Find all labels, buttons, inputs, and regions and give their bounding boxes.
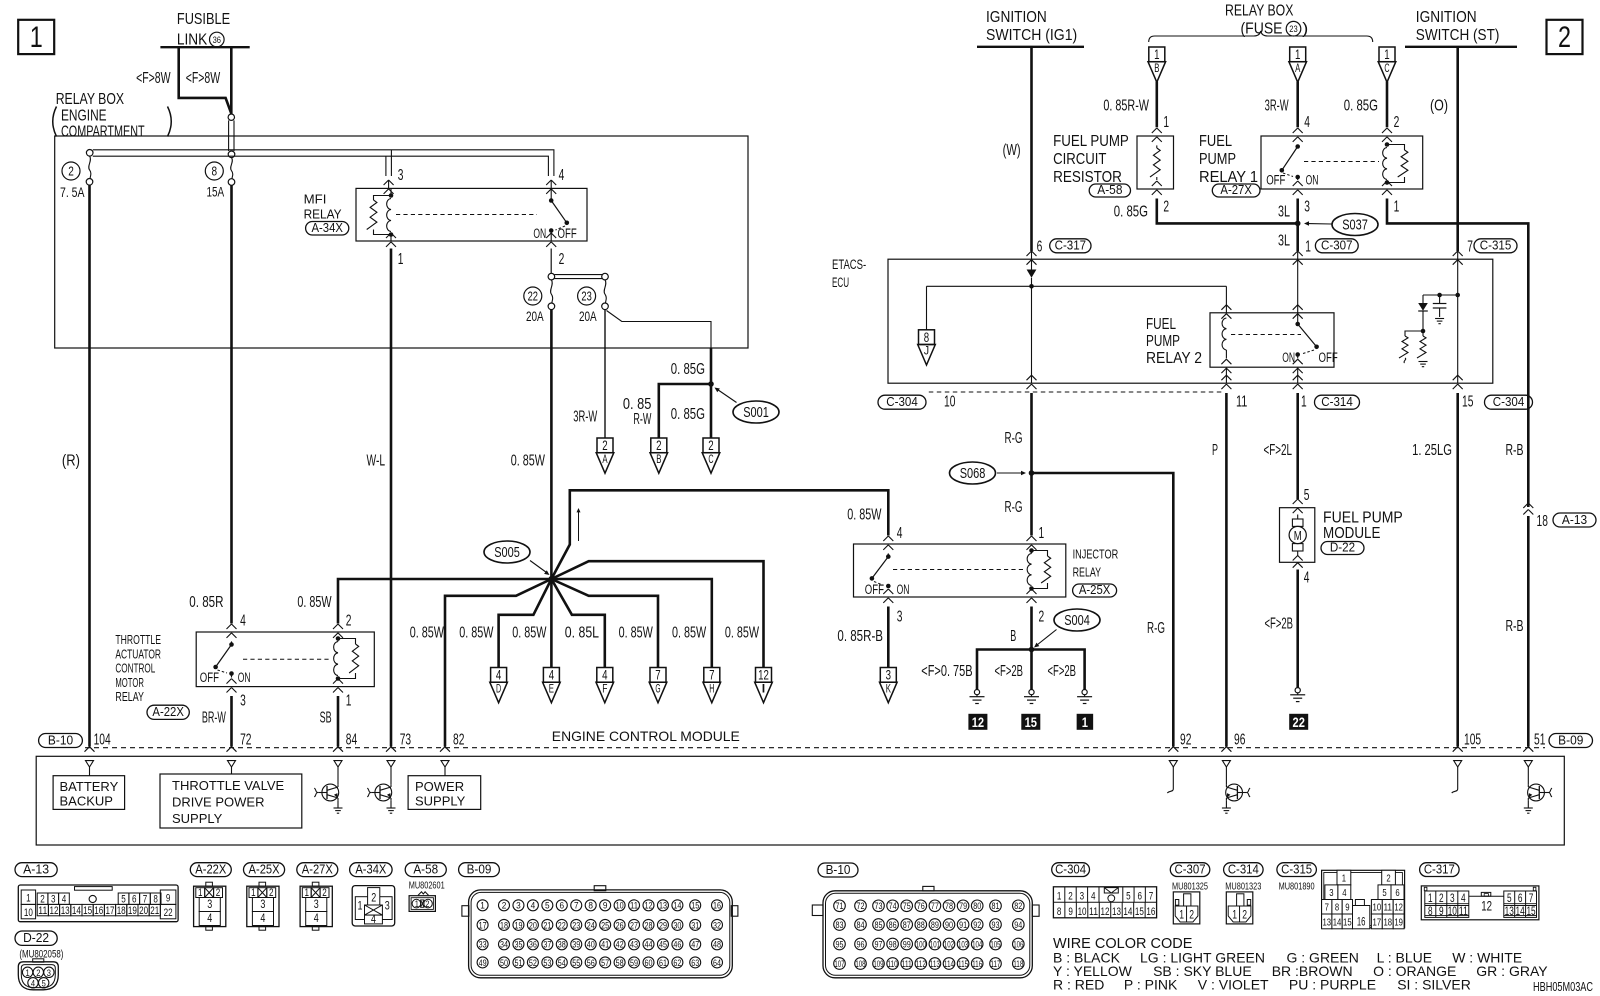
svg-text:8: 8 xyxy=(1057,906,1062,918)
wire 0.85R-B to connector K xyxy=(887,607,890,668)
fuel pump module pin5 feet xyxy=(1293,499,1303,513)
svg-text:GR : GRAY: GR : GRAY xyxy=(1476,963,1548,979)
svg-text:87: 87 xyxy=(903,920,911,930)
throttle relay pin2 feet xyxy=(333,624,343,638)
svg-text:A-34X: A-34X xyxy=(311,221,343,235)
ignition switch ST header xyxy=(1405,9,1517,47)
svg-text:85: 85 xyxy=(875,920,883,930)
svg-text:43: 43 xyxy=(630,940,638,950)
svg-text:5: 5 xyxy=(1126,890,1131,902)
svg-text:3: 3 xyxy=(886,668,891,683)
connector C-317 label xyxy=(1420,861,1460,876)
svg-text:108: 108 xyxy=(855,959,865,969)
connector C-317 body xyxy=(1421,886,1539,920)
terminal circle at fusible link joint xyxy=(228,114,234,120)
label 0.85W to ECM82 xyxy=(410,625,445,642)
label 0.85G upper xyxy=(671,361,705,378)
svg-text:0. 85W: 0. 85W xyxy=(672,625,707,642)
injector relay dashed link xyxy=(893,569,1026,571)
svg-text:4: 4 xyxy=(531,901,536,912)
svg-text:10: 10 xyxy=(944,393,956,410)
svg-text:5: 5 xyxy=(1382,887,1386,899)
svg-text:72: 72 xyxy=(857,901,865,911)
wire S005 branch to connector F xyxy=(551,579,604,668)
svg-text:RELAY 2: RELAY 2 xyxy=(1146,350,1202,367)
svg-text:78: 78 xyxy=(945,901,953,911)
svg-text:4: 4 xyxy=(260,911,265,925)
svg-text:3: 3 xyxy=(1304,198,1310,215)
injector relay pin1 label xyxy=(1039,525,1045,542)
svg-text:79: 79 xyxy=(959,901,967,911)
svg-text:S004: S004 xyxy=(1064,613,1090,629)
fuel pump relay1 pin1 label xyxy=(1394,198,1400,215)
svg-text:B-09: B-09 xyxy=(467,861,492,876)
fuse 22/23 feeder bus xyxy=(555,275,603,279)
svg-text:63: 63 xyxy=(691,958,699,968)
svg-text:5: 5 xyxy=(545,901,550,912)
wire S005 branch to connector D xyxy=(499,579,552,668)
svg-text:0. 85W: 0. 85W xyxy=(847,507,882,524)
svg-text:B-10: B-10 xyxy=(48,733,73,747)
label F2B mid2 xyxy=(1048,663,1077,680)
fuel pump circuit resistor label A-58 xyxy=(1053,133,1130,197)
svg-text:P: P xyxy=(1212,442,1218,459)
svg-text:4: 4 xyxy=(371,912,376,926)
svg-text:48: 48 xyxy=(713,940,721,950)
svg-text:9: 9 xyxy=(1439,906,1444,918)
svg-text:RELAY: RELAY xyxy=(115,689,144,704)
svg-text:<F>8W: <F>8W xyxy=(186,70,221,87)
ground right of S004 xyxy=(1077,690,1092,704)
svg-text:SUPPLY: SUPPLY xyxy=(415,794,466,809)
svg-text:14: 14 xyxy=(1333,916,1342,928)
MFI relay pin 3 label xyxy=(398,167,404,184)
svg-text:2: 2 xyxy=(1039,608,1045,625)
protection resistor left branch xyxy=(1399,331,1423,363)
fuel pump relay1 pin3 label xyxy=(1304,198,1310,215)
power supply box xyxy=(408,767,481,809)
svg-text:SB: SB xyxy=(320,710,332,727)
connector 3-K triangle xyxy=(880,668,898,703)
label 6 C-317 xyxy=(1037,239,1091,256)
label W-L xyxy=(367,452,386,469)
wire 0.85W fuse22 to S005 xyxy=(550,310,553,579)
svg-text:11: 11 xyxy=(630,901,638,911)
svg-text:7: 7 xyxy=(709,668,714,683)
svg-text:<F>2B: <F>2B xyxy=(1265,616,1294,633)
svg-text:19: 19 xyxy=(128,905,137,917)
ground pin 22 black box xyxy=(1289,714,1308,730)
svg-text:3: 3 xyxy=(240,693,246,710)
MFI relay dashed link xyxy=(396,214,537,216)
ECM entry triangle x1528.3 xyxy=(1524,761,1532,767)
ECM box outline xyxy=(36,756,1564,845)
ground pin 15 black box xyxy=(1021,714,1040,730)
engine control module label xyxy=(552,728,740,744)
svg-text:RELAY: RELAY xyxy=(304,207,342,222)
svg-text:4: 4 xyxy=(496,668,502,683)
fuel pump module pin4 label xyxy=(1304,570,1310,587)
svg-text:INJECTOR: INJECTOR xyxy=(1073,547,1119,562)
svg-text:8: 8 xyxy=(212,165,218,179)
label F2B mid1 xyxy=(995,663,1024,680)
ECM entry triangle x1173.3 xyxy=(1169,761,1177,767)
MFI relay OFF label xyxy=(558,226,577,241)
transistor at ECM pin 84 xyxy=(314,767,342,813)
svg-text:3: 3 xyxy=(385,899,390,913)
svg-text:LINK: LINK xyxy=(177,32,208,49)
wire color code line Y xyxy=(1053,963,1548,979)
svg-text:MU801325: MU801325 xyxy=(1172,880,1208,892)
label 3R-W xyxy=(573,408,598,425)
svg-text:7: 7 xyxy=(1325,902,1329,914)
node S001 junction dot xyxy=(708,381,714,387)
wire P pin11 to ECM 96 xyxy=(1225,393,1228,747)
svg-text:54: 54 xyxy=(558,958,566,968)
svg-text:R-W: R-W xyxy=(633,411,652,428)
svg-text:R-G: R-G xyxy=(1005,430,1023,447)
throttle valve drive power supply box xyxy=(160,767,302,828)
svg-text:2: 2 xyxy=(1189,910,1194,922)
svg-text:3: 3 xyxy=(314,897,319,911)
svg-text:93: 93 xyxy=(992,920,1000,930)
throttle relay ON label xyxy=(238,670,251,685)
svg-text:FUEL: FUEL xyxy=(1199,133,1232,150)
svg-text:16: 16 xyxy=(1357,916,1366,928)
svg-text:12: 12 xyxy=(1481,897,1492,913)
svg-text:H: H xyxy=(709,683,714,695)
svg-text:4: 4 xyxy=(1304,570,1310,587)
svg-text:13: 13 xyxy=(1112,906,1121,918)
label R-G lower xyxy=(1005,499,1023,516)
svg-text:R-B: R-B xyxy=(1506,442,1524,459)
label 20A right xyxy=(579,308,597,324)
fuse 8 (15A) xyxy=(228,151,235,185)
svg-text:14: 14 xyxy=(1123,906,1132,918)
svg-text:45: 45 xyxy=(659,940,667,950)
label 7 C-315 xyxy=(1467,239,1517,256)
svg-text:4: 4 xyxy=(62,893,67,905)
ground bus from S004 xyxy=(977,650,1085,690)
svg-text:28: 28 xyxy=(645,920,653,930)
svg-text:C-317: C-317 xyxy=(1424,861,1455,876)
battery backup box xyxy=(53,767,125,809)
svg-text:88: 88 xyxy=(917,920,925,930)
wire (R) fuse2 to ECM 104 xyxy=(88,185,91,746)
svg-text:A-13: A-13 xyxy=(1562,513,1587,527)
svg-text:9: 9 xyxy=(1068,906,1073,918)
label 0.85W I xyxy=(725,625,760,642)
svg-text:): ) xyxy=(1302,21,1308,38)
svg-text:MU801890: MU801890 xyxy=(1279,880,1315,892)
injector relay pin1 feet xyxy=(1027,536,1037,550)
svg-text:5: 5 xyxy=(121,893,126,905)
wire 0.85W S005 to injector relay pin4 xyxy=(551,490,888,579)
fuel pump relay2 OFF label xyxy=(1319,350,1338,365)
svg-text:60: 60 xyxy=(645,958,653,968)
svg-text:<F>0. 75B: <F>0. 75B xyxy=(921,663,972,680)
throttle relay pin3 feet xyxy=(227,679,237,693)
svg-text:105: 105 xyxy=(990,939,1000,949)
wire ST down xyxy=(1456,47,1459,251)
svg-text:89: 89 xyxy=(931,920,939,930)
label <F>8W left xyxy=(136,70,171,87)
wire IG1 down xyxy=(1030,47,1033,251)
svg-text:G: G xyxy=(655,683,660,695)
connector 7-H triangle xyxy=(703,668,721,703)
wire drop to connector 8-J xyxy=(926,286,928,330)
connector 1-A triangle xyxy=(1289,47,1307,82)
svg-text:14: 14 xyxy=(1516,906,1526,918)
connector 12-I triangle xyxy=(755,668,773,703)
svg-text:8: 8 xyxy=(924,330,929,345)
svg-text:7: 7 xyxy=(1467,239,1473,256)
wire 0.85G from C to fuel pump relay1 pin2 xyxy=(1386,82,1389,128)
ECM entry triangle x1226.4 xyxy=(1222,761,1230,767)
fuse 8 number circle xyxy=(205,162,223,180)
svg-text:4: 4 xyxy=(897,525,903,542)
connector A-34X body xyxy=(352,886,395,926)
svg-text:4: 4 xyxy=(207,911,212,925)
wire fusible link left <F>8W xyxy=(179,47,232,113)
svg-text:10: 10 xyxy=(616,901,624,911)
svg-text:MU801323: MU801323 xyxy=(1225,880,1261,892)
svg-text:51: 51 xyxy=(514,958,522,968)
ECM entry foot x1173.3 xyxy=(1168,747,1178,752)
svg-text:P : PINK: P : PINK xyxy=(1124,977,1178,993)
svg-text:1: 1 xyxy=(1301,393,1307,410)
connector B-09 body xyxy=(462,886,738,978)
fuse 2 (7.5A) xyxy=(86,150,93,186)
svg-text:34: 34 xyxy=(500,940,508,950)
svg-text:12: 12 xyxy=(645,901,653,911)
svg-text:<F>2B: <F>2B xyxy=(995,663,1024,680)
injector relay pin2 feet xyxy=(1027,589,1037,603)
svg-text:15A: 15A xyxy=(207,183,225,199)
svg-text:15: 15 xyxy=(1025,715,1038,730)
fuel pump relay2 coil xyxy=(1222,318,1226,359)
svg-text:0. 85W: 0. 85W xyxy=(297,594,332,611)
svg-text:82: 82 xyxy=(1014,901,1022,911)
svg-text:2: 2 xyxy=(559,251,565,268)
svg-text:100: 100 xyxy=(916,939,926,949)
label 1 C-314 xyxy=(1301,393,1360,410)
svg-text:ETACS-: ETACS- xyxy=(832,257,866,272)
fuel pump circuit resistor pin2 label xyxy=(1163,198,1169,215)
label SB xyxy=(320,710,332,727)
svg-text:B: B xyxy=(656,454,661,466)
svg-text:75: 75 xyxy=(903,901,911,911)
svg-text:D-22: D-22 xyxy=(23,930,49,945)
svg-text:22: 22 xyxy=(1293,715,1305,730)
svg-text:D-22: D-22 xyxy=(1330,540,1355,554)
svg-text:20: 20 xyxy=(139,905,148,917)
svg-text:C-304: C-304 xyxy=(886,395,918,409)
fuel pump relay2 switch entry feet xyxy=(1293,305,1303,319)
connector C-307 part number xyxy=(1172,880,1208,892)
svg-text:22: 22 xyxy=(164,907,173,919)
wire R-B from relay1 pin1 xyxy=(1387,199,1528,508)
label C-304 10 xyxy=(878,393,956,410)
svg-text:1: 1 xyxy=(26,893,31,905)
svg-text:ON: ON xyxy=(1306,173,1319,188)
svg-text:PUMP: PUMP xyxy=(1146,333,1180,350)
splice S068 xyxy=(950,462,1027,484)
bus wire upper inside relay box xyxy=(93,150,554,176)
fuel pump circuit resistor element xyxy=(1150,145,1160,180)
svg-text:1: 1 xyxy=(1039,525,1045,542)
svg-text:6: 6 xyxy=(560,901,565,912)
svg-text:96: 96 xyxy=(857,939,865,949)
svg-text:PU : PURPLE: PU : PURPLE xyxy=(1289,977,1376,993)
injector relay coil xyxy=(1027,548,1034,591)
label (R) xyxy=(62,452,80,469)
protection diode xyxy=(1418,295,1428,331)
svg-text:IGNITION: IGNITION xyxy=(1416,9,1477,26)
svg-text:OFF: OFF xyxy=(865,582,884,597)
injector relay pin4 label xyxy=(897,525,903,542)
svg-text:1: 1 xyxy=(1179,910,1184,922)
svg-text:8: 8 xyxy=(588,901,593,912)
svg-text:0. 85W: 0. 85W xyxy=(512,625,547,642)
svg-text:4: 4 xyxy=(1091,890,1096,902)
svg-text:13: 13 xyxy=(1322,916,1331,928)
wire R-G pin10 to injector relay xyxy=(1030,393,1033,536)
svg-text:0. 85G: 0. 85G xyxy=(1114,203,1148,220)
svg-text:61: 61 xyxy=(659,958,667,968)
label 0.85W at throttle relay coil xyxy=(297,594,332,611)
ground fuel pump module xyxy=(1290,688,1305,702)
throttle actuator relay label A-22X xyxy=(115,632,189,719)
svg-text:3: 3 xyxy=(398,167,404,184)
label 3L upper xyxy=(1278,203,1290,220)
svg-text:44: 44 xyxy=(645,940,653,950)
ECM pin 92 label xyxy=(1180,732,1191,749)
label 1 C-307 xyxy=(1305,239,1358,256)
fuel pump relay1 pin4 feet xyxy=(1293,128,1303,142)
svg-text:A-58: A-58 xyxy=(413,861,438,876)
svg-text:OFF: OFF xyxy=(1266,173,1285,188)
transistor at ECM pin 73 xyxy=(367,767,395,813)
ground left of S004 xyxy=(970,690,985,704)
node ST protection dot xyxy=(1455,293,1460,298)
splice S005 xyxy=(484,541,550,575)
svg-text:2: 2 xyxy=(68,165,74,179)
label 3L lower xyxy=(1278,233,1290,250)
label 7.5A xyxy=(60,184,85,200)
svg-text:103: 103 xyxy=(958,939,968,949)
svg-text:COMPARTMENT: COMPARTMENT xyxy=(61,124,145,141)
connector C-304 label xyxy=(1052,861,1090,876)
svg-text:0. 85R-B: 0. 85R-B xyxy=(837,628,883,645)
ECM entry foot x89.5 xyxy=(85,747,95,752)
fuel pump relay 1 box xyxy=(1261,136,1423,189)
svg-text:105: 105 xyxy=(1464,732,1481,749)
fuel pump module label D-22 xyxy=(1321,510,1403,555)
svg-text:24: 24 xyxy=(587,920,595,930)
svg-text:PUMP: PUMP xyxy=(1199,151,1236,168)
fuel pump relay1 pin2 feet xyxy=(1382,128,1392,142)
svg-text:B: B xyxy=(1154,63,1159,75)
svg-text:C-314: C-314 xyxy=(1321,395,1353,409)
svg-text:12: 12 xyxy=(50,905,59,917)
svg-text:W-L: W-L xyxy=(367,452,386,469)
svg-text:3: 3 xyxy=(47,968,51,979)
svg-text:74: 74 xyxy=(889,901,897,911)
dashed link C-304 to pin 11 xyxy=(929,391,1225,393)
svg-text:6: 6 xyxy=(1395,887,1399,899)
svg-text:92: 92 xyxy=(1180,732,1191,749)
label R-G upper xyxy=(1005,430,1023,447)
label 0.85W E xyxy=(512,625,547,642)
fuel pump module box xyxy=(1280,508,1315,563)
svg-text:3: 3 xyxy=(516,901,521,912)
svg-text:8: 8 xyxy=(153,893,158,905)
svg-text:IGNITION: IGNITION xyxy=(986,9,1047,26)
fusible link bus bar xyxy=(160,46,249,48)
svg-text:11: 11 xyxy=(1236,393,1247,410)
IG1 wire feet at C-317 and ETACS entry xyxy=(1027,251,1037,270)
ETACS exit feet C-304-15 xyxy=(1453,375,1463,389)
label F0.75B xyxy=(921,663,972,680)
svg-text:4: 4 xyxy=(1304,114,1310,131)
svg-text:7: 7 xyxy=(1149,890,1154,902)
flow arrow on 0.85W riser xyxy=(577,508,581,541)
svg-text:59: 59 xyxy=(630,958,638,968)
svg-text:27: 27 xyxy=(630,920,638,930)
fuel pump motor xyxy=(1289,515,1306,556)
svg-text:CONTROL: CONTROL xyxy=(115,661,155,676)
ECM entry triangle x1457.7 xyxy=(1454,761,1462,767)
svg-text:112: 112 xyxy=(916,959,926,969)
svg-text:31: 31 xyxy=(691,920,699,930)
svg-text:BR-W: BR-W xyxy=(202,710,227,727)
svg-text:91: 91 xyxy=(959,920,967,930)
svg-text:ON: ON xyxy=(897,582,910,597)
node protection mid dot xyxy=(1421,329,1426,334)
MFI relay pin 4 label xyxy=(559,167,565,184)
label 0.85 R-W xyxy=(623,396,652,428)
svg-text:84: 84 xyxy=(346,732,358,749)
svg-text:10: 10 xyxy=(1373,902,1382,914)
svg-text:C-304: C-304 xyxy=(1055,861,1086,876)
svg-text:1: 1 xyxy=(1305,239,1311,256)
relay box (engine compartment) label xyxy=(53,91,172,141)
connector A-25X label xyxy=(244,861,285,876)
injector relay pin3 label xyxy=(897,608,903,625)
svg-text:62: 62 xyxy=(673,958,681,968)
MFI relay pin 2 label xyxy=(559,251,565,268)
svg-text:OFF: OFF xyxy=(200,670,219,685)
svg-text:FUEL PUMP: FUEL PUMP xyxy=(1053,133,1129,150)
svg-text:26: 26 xyxy=(616,920,624,930)
wire BR-W to ECM 72 xyxy=(230,696,233,747)
svg-text:R : RED: R : RED xyxy=(1053,977,1104,993)
svg-text:40: 40 xyxy=(587,940,595,950)
svg-text:83: 83 xyxy=(836,920,844,930)
svg-text:SWITCH (ST): SWITCH (ST) xyxy=(1416,27,1500,44)
fuse 22 top terminal xyxy=(548,273,555,280)
svg-text:9: 9 xyxy=(1345,902,1349,914)
svg-text:58: 58 xyxy=(616,958,624,968)
svg-text:0. 85G: 0. 85G xyxy=(671,361,705,378)
MFI relay switch xyxy=(549,189,569,241)
svg-text:MOTOR: MOTOR xyxy=(115,675,144,690)
load hook at ECM pin 92 xyxy=(1167,767,1173,793)
svg-text:2: 2 xyxy=(1163,198,1169,215)
pass-through connector into relay box xyxy=(229,120,234,151)
splice S004 xyxy=(1034,609,1100,648)
